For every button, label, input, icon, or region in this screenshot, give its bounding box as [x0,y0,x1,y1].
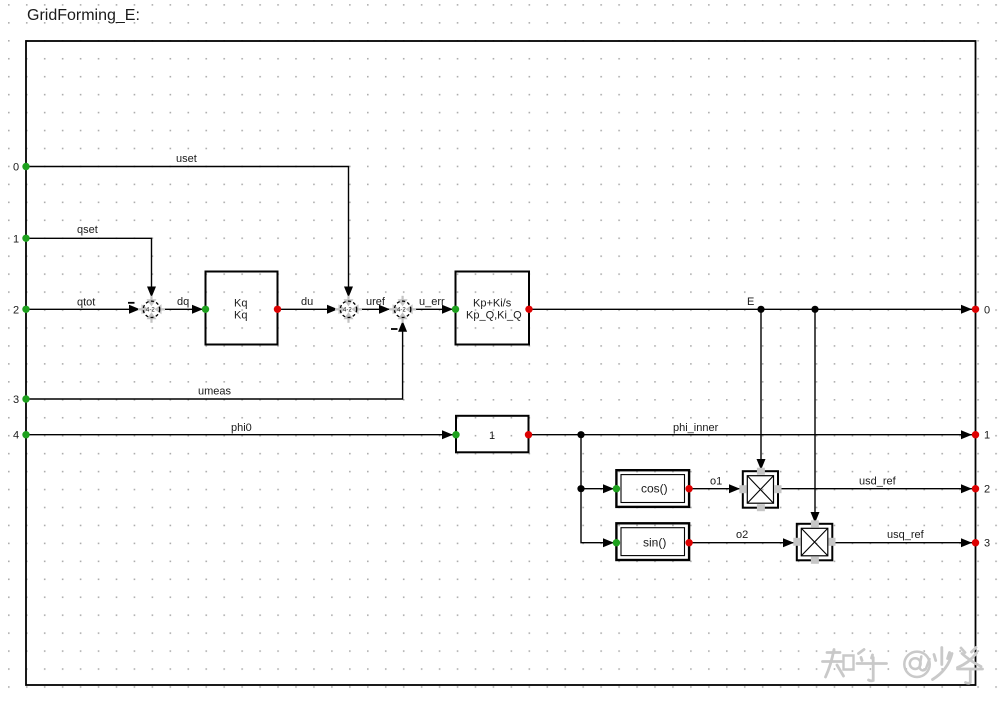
wire du (Kq to J2) [278,305,341,314]
port right 3 [972,538,990,550]
svg-text:Kq: Kq [234,298,247,310]
svg-text:1: 1 [984,430,990,442]
ye character [958,648,983,684]
svg-text:uref: uref [366,296,386,308]
wire phi branch vertical [581,435,614,548]
label o1 [710,476,722,488]
shao character [933,648,953,680]
summing junction J1 [138,296,165,323]
label o2 [736,529,748,541]
wire qtot [26,303,141,314]
svg-text:cos(): cos() [641,482,668,496]
wire usd_ref (multiplier 1 to right port 2) [778,484,972,493]
block 1 (gain) [452,416,532,453]
svg-text:GridForming_E:: GridForming_E: [27,7,140,24]
svg-text:du: du [301,296,313,308]
svg-text:0: 0 [13,162,19,174]
summing junction J3 [389,296,416,323]
label usq_ref [887,529,925,541]
label u_err [419,296,445,308]
svg-text:3: 3 [13,394,19,406]
svg-text:Kp_Q,Ki_Q: Kp_Q,Ki_Q [466,310,522,322]
label usd_ref [859,476,897,488]
label phi_inner [673,422,719,434]
svg-text:1: 1 [489,430,495,442]
label uset [176,153,197,165]
wire phi_inner (block 1 to right port 1) [529,430,973,439]
svg-text:4-2: 4-2 [343,308,352,314]
watermark zhihu [823,648,983,684]
svg-text:2: 2 [13,304,19,316]
wire qset [26,238,156,297]
at sign [904,652,929,677]
svg-text:usd_ref: usd_ref [859,476,897,488]
block cos [613,470,693,507]
port left 1 [13,233,30,245]
label phi0 [231,422,252,434]
svg-text:E: E [747,296,754,308]
label dq [177,296,189,308]
svg-text:u_err: u_err [419,296,445,308]
port left 3 [13,394,30,406]
svg-text:4: 4 [13,430,19,442]
block Kp [452,272,533,345]
port left 2 [13,304,30,316]
title GridForming_E [27,7,140,24]
svg-text:uset: uset [176,153,197,165]
svg-text:qset: qset [77,224,98,236]
svg-text:1: 1 [13,233,19,245]
multiplier M1 [739,468,781,512]
svg-text:qtot: qtot [77,297,95,309]
svg-text:phi_inner: phi_inner [673,422,719,434]
wire phi0 [26,430,453,439]
svg-text:0: 0 [984,304,990,316]
label E [747,296,754,308]
svg-text:Kq: Kq [234,310,247,322]
svg-text:usq_ref: usq_ref [887,529,925,541]
wire o1 (cos to multiplier 1) [689,484,740,493]
port left 0 [13,162,30,174]
hu character [857,650,887,681]
multiplier M2 [793,520,835,564]
wire u_err (J3 to Kp) [411,305,453,314]
label du [301,296,313,308]
node phi cos branch [577,485,584,492]
port right 0 [972,304,990,316]
svg-text:dq: dq [177,296,189,308]
wire o2 (sin to multiplier 2) [689,538,794,547]
wire umeas [26,321,407,399]
label uref [366,296,386,308]
svg-text:3: 3 [984,538,990,550]
svg-text:phi0: phi0 [231,422,252,434]
block sin [613,523,693,560]
node E branch 1 [757,306,764,313]
label qtot [77,297,95,309]
svg-text:o2: o2 [736,529,748,541]
svg-text:o1: o1 [710,476,722,488]
wire dq (J1 to Kq) [160,305,203,314]
svg-text:sin(): sin() [643,536,666,550]
svg-text:4-2: 4-2 [397,308,406,314]
wire uref (J2 to J3) [357,305,390,314]
label umeas [198,386,232,398]
svg-text:umeas: umeas [198,386,232,398]
wire phi branch to cos [581,484,614,493]
wire E branch to multiplier 1 [757,309,766,470]
node phi_inner branch [577,431,584,438]
wire E branch to multiplier 2 [811,309,820,523]
wire usq_ref (multiplier 2 to right port 3) [832,538,972,547]
port right 2 [972,484,990,496]
svg-text:2: 2 [984,484,990,496]
node E branch 2 [811,306,818,313]
block Kq [202,272,281,345]
label qset [77,224,98,236]
svg-text:4-2: 4-2 [146,308,155,314]
summing junction J2 [335,296,362,323]
zhi character [823,650,844,678]
port left 4 [13,430,30,442]
port right 1 [972,430,990,442]
wire E (Kp to right port 0) [529,305,972,314]
wire uset [26,167,353,298]
svg-text:Kp+Ki/s: Kp+Ki/s [473,298,512,310]
